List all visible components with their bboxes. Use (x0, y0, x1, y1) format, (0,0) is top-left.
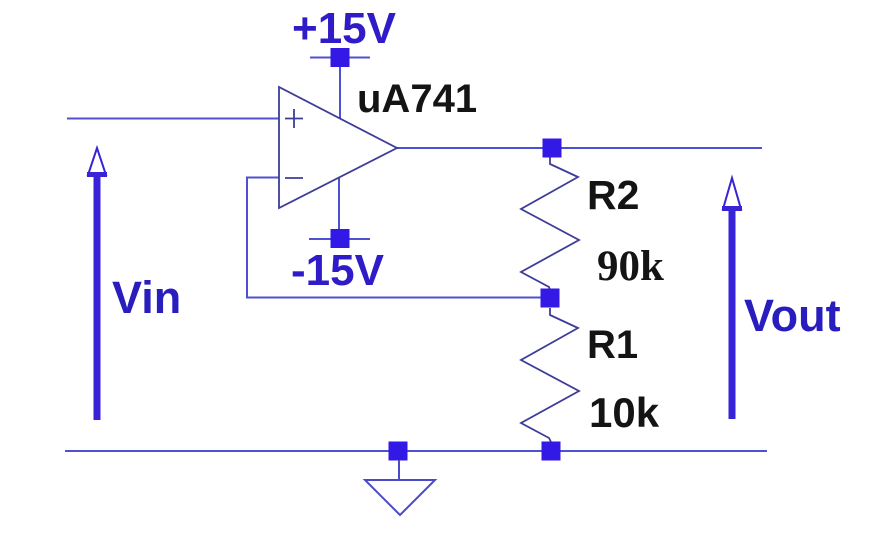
node: R1 bottom junction square (542, 442, 561, 461)
op-amp U1 uA741 body (279, 87, 397, 208)
svg-text:R1: R1 (587, 323, 638, 367)
wire: non-inverting input (+) horizontal (67, 118, 279, 120)
svg-text:+15V: +15V (292, 4, 397, 53)
wire: bottom ground rail (65, 450, 767, 452)
wire: -15V terminal crossbar (309, 238, 370, 240)
svg-text:-15V: -15V (291, 246, 385, 295)
wire: +15V terminal crossbar (310, 57, 370, 59)
svg-text:90k: 90k (597, 243, 664, 290)
node: +15V supply square (331, 48, 350, 67)
op-amp + input pin mark (285, 109, 303, 128)
wire: inverting input / feedback loop (247, 178, 550, 298)
svg-text:Vin: Vin (112, 272, 181, 323)
node: ground junction square (389, 442, 408, 461)
resistor R2 zigzag (521, 157, 579, 290)
node: -15V supply square (331, 229, 350, 248)
Vout arrow (722, 178, 742, 419)
wire: +15V supply drop to op-amp (339, 58, 341, 119)
ground symbol (365, 460, 435, 515)
op-amp - input pin mark (285, 177, 303, 179)
node: feedback junction square (541, 289, 560, 308)
wire: op-amp output to right (397, 147, 762, 149)
node: output junction square (543, 139, 562, 158)
Vin arrow (87, 148, 107, 420)
svg-text:uA741: uA741 (357, 77, 477, 121)
svg-text:R2: R2 (587, 172, 639, 218)
svg-text:10k: 10k (589, 389, 660, 436)
resistor R1 zigzag (521, 308, 579, 442)
svg-text:Vout: Vout (744, 290, 841, 341)
wire: op-amp to -15V supply (338, 177, 340, 230)
